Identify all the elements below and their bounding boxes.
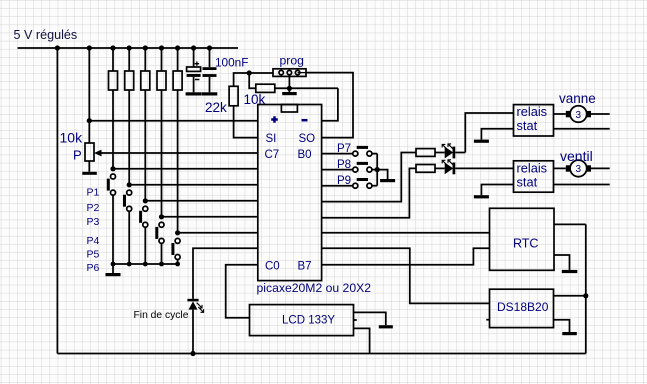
pin +	[271, 116, 278, 123]
svg-text:SO: SO	[299, 133, 316, 145]
svg-text:prog: prog	[280, 54, 304, 68]
wire relais1 lower-left to ground	[481, 129, 513, 140]
resistor R7	[416, 165, 435, 173]
push button P2	[127, 182, 132, 187]
wire D1 to relais1	[465, 113, 513, 153]
wire C0 to LCD	[226, 265, 258, 318]
node bus3	[143, 262, 148, 267]
IC U1 picaxe20M2	[258, 105, 322, 281]
ground prog	[288, 76, 290, 92]
node bus1	[111, 262, 116, 267]
svg-text:stat: stat	[517, 174, 538, 189]
connector prog	[273, 69, 306, 77]
svg-text:B7: B7	[298, 261, 312, 273]
wire pin to P9	[322, 185, 353, 187]
svg-text:P: P	[73, 148, 82, 163]
wire LCD lower-right to bottom rail	[354, 328, 370, 353]
svg-text:P9: P9	[337, 175, 351, 187]
potentiometer P 10k	[88, 121, 90, 143]
resistor R1	[112, 48, 114, 71]
pin -	[302, 119, 308, 122]
diode D1	[445, 147, 454, 159]
box LCD 133Y	[250, 305, 354, 336]
node serial-in	[247, 70, 252, 75]
node pot top	[87, 118, 92, 123]
motor M1 vanne	[566, 111, 571, 117]
D1 emission arrows	[442, 144, 453, 150]
wire P7-P9 common	[376, 154, 378, 186]
node rail-pot	[87, 45, 92, 50]
resistor R2	[128, 48, 130, 71]
svg-text:vanne: vanne	[559, 91, 596, 106]
ground DS18B20	[562, 332, 577, 335]
ground RTC	[562, 270, 578, 273]
node rail-left-column	[55, 45, 60, 50]
wire B7 to RTC lower pin	[322, 248, 490, 264]
push button P9	[353, 183, 358, 188]
ground LCD	[379, 325, 393, 328]
svg-text:stat: stat	[517, 118, 538, 133]
wire relais2 to motor ventil	[554, 167, 566, 169]
wire plus pin of IC	[89, 120, 257, 122]
LED arrows	[197, 303, 204, 313]
wire prog pin3 to SO	[306, 73, 353, 138]
svg-text:C0: C0	[265, 261, 280, 273]
svg-text:P3: P3	[87, 216, 100, 228]
resistor R5	[177, 48, 179, 71]
wire button common bus	[113, 263, 178, 265]
push button P7	[353, 151, 358, 156]
wire output pin to R6	[322, 153, 416, 202]
node rail-C2	[207, 45, 212, 50]
node P8 common	[375, 167, 380, 172]
node rail-R3	[143, 45, 148, 50]
wire IC pin to DS18B20 data	[322, 248, 490, 303]
svg-text:RTC: RTC	[513, 237, 538, 251]
svg-text:DS18B20: DS18B20	[497, 300, 549, 314]
svg-text:relais: relais	[517, 160, 548, 175]
D2 emission arrows	[442, 160, 453, 166]
svg-text:P1: P1	[87, 187, 100, 199]
wire output pin to R7	[322, 168, 416, 217]
push button P5	[175, 230, 180, 235]
svg-text:ventil: ventil	[560, 148, 593, 164]
wire RTC right to vertical	[554, 223, 586, 225]
capacitor C1 electrolytic	[193, 48, 195, 67]
wire relais2 lower-right	[554, 184, 610, 186]
ground relais2	[474, 195, 489, 198]
svg-text:100nF: 100nF	[215, 56, 248, 70]
node rail-R2	[127, 45, 132, 50]
node rail-R4	[159, 45, 164, 50]
wire relais1 to motor vanne	[554, 113, 566, 115]
resistor R6	[416, 149, 435, 157]
node bus2	[127, 262, 132, 267]
resistor R3	[144, 48, 146, 71]
diode D2	[445, 163, 454, 175]
wire IC to RTC upper pin	[322, 232, 490, 234]
wire relais2 lower-left to ground	[481, 185, 513, 196]
svg-text:SI: SI	[266, 133, 277, 145]
svg-text:Fin de cycle: Fin de cycle	[134, 310, 189, 321]
relay U2 relais stat 1	[514, 105, 554, 136]
push button P1	[110, 166, 115, 171]
node bus4	[159, 262, 164, 267]
ground relais1	[474, 140, 489, 143]
pin stub LCD mid-right	[354, 319, 357, 321]
wire DS18B20 lower-right to ground	[554, 320, 570, 332]
IC notch	[281, 105, 297, 113]
pot wiper arrow to C7	[99, 152, 258, 154]
motor M2 ventil	[566, 165, 571, 171]
wire P6 pin to LED	[193, 248, 258, 298]
svg-text:10k: 10k	[60, 130, 84, 146]
wire B0 to P7	[322, 153, 353, 155]
svg-text:picaxe20M2 ou 20X2: picaxe20M2 ou 20X2	[257, 281, 372, 295]
pin stub DS18B20 lower-left	[486, 319, 489, 321]
ground button bus	[112, 264, 114, 273]
ground pot	[82, 172, 97, 175]
svg-text:relais: relais	[517, 104, 548, 119]
node prog ground	[287, 86, 292, 91]
wire +5V rail	[18, 47, 238, 49]
wire pin to P8	[322, 169, 353, 171]
wire right vertical to bottom rail	[585, 224, 587, 353]
svg-text:P5: P5	[87, 249, 100, 261]
svg-text:P6: P6	[87, 262, 100, 274]
svg-text:22k: 22k	[205, 100, 227, 115]
capacitor C2 100nF	[209, 48, 211, 67]
node LED bottom rail	[190, 351, 195, 356]
wire rail to pot node	[88, 48, 90, 121]
wire prog pin1 node	[234, 73, 273, 86]
node bus5	[175, 262, 180, 267]
svg-text:3: 3	[576, 110, 582, 121]
wire bottom 5V rail	[57, 353, 585, 355]
svg-text:B0: B0	[298, 149, 312, 161]
wire relais1 lower-right	[554, 128, 610, 130]
wire LCD upper-right to ground	[354, 312, 386, 325]
svg-text:P7: P7	[337, 143, 351, 155]
resistor 22k	[229, 86, 238, 106]
svg-text:C7: C7	[265, 149, 280, 161]
svg-text:P4: P4	[87, 235, 100, 247]
ground P7-P9	[377, 170, 387, 179]
ground C1	[186, 92, 202, 95]
wire minus pin to ground node	[322, 88, 338, 120]
push button P8	[353, 167, 358, 172]
node rail-C1	[191, 45, 196, 50]
wire RTC lower-right to ground	[554, 255, 570, 270]
svg-text:P8: P8	[337, 159, 351, 171]
push button P3	[143, 198, 148, 203]
resistor R4	[161, 48, 163, 71]
ground C2	[202, 92, 218, 95]
box RTC	[490, 208, 555, 270]
svg-text:5 V régulés: 5 V régulés	[14, 28, 78, 42]
svg-text:3: 3	[576, 164, 582, 175]
node rail-R5	[175, 45, 180, 50]
wire left vertical 5V feed	[56, 48, 58, 354]
svg-text:P2: P2	[87, 202, 100, 214]
node DS18B20 vertical	[583, 293, 588, 298]
LED fin de cycle	[187, 299, 198, 302]
wire DS18B20 to vertical	[554, 295, 586, 297]
node rail-R1	[110, 45, 115, 50]
resistor 10k serial	[249, 73, 256, 88]
box DS18B20	[490, 289, 554, 327]
relay U3 relais stat 2	[514, 161, 554, 192]
push button P4	[159, 214, 164, 219]
svg-text:LCD 133Y: LCD 133Y	[282, 315, 335, 327]
